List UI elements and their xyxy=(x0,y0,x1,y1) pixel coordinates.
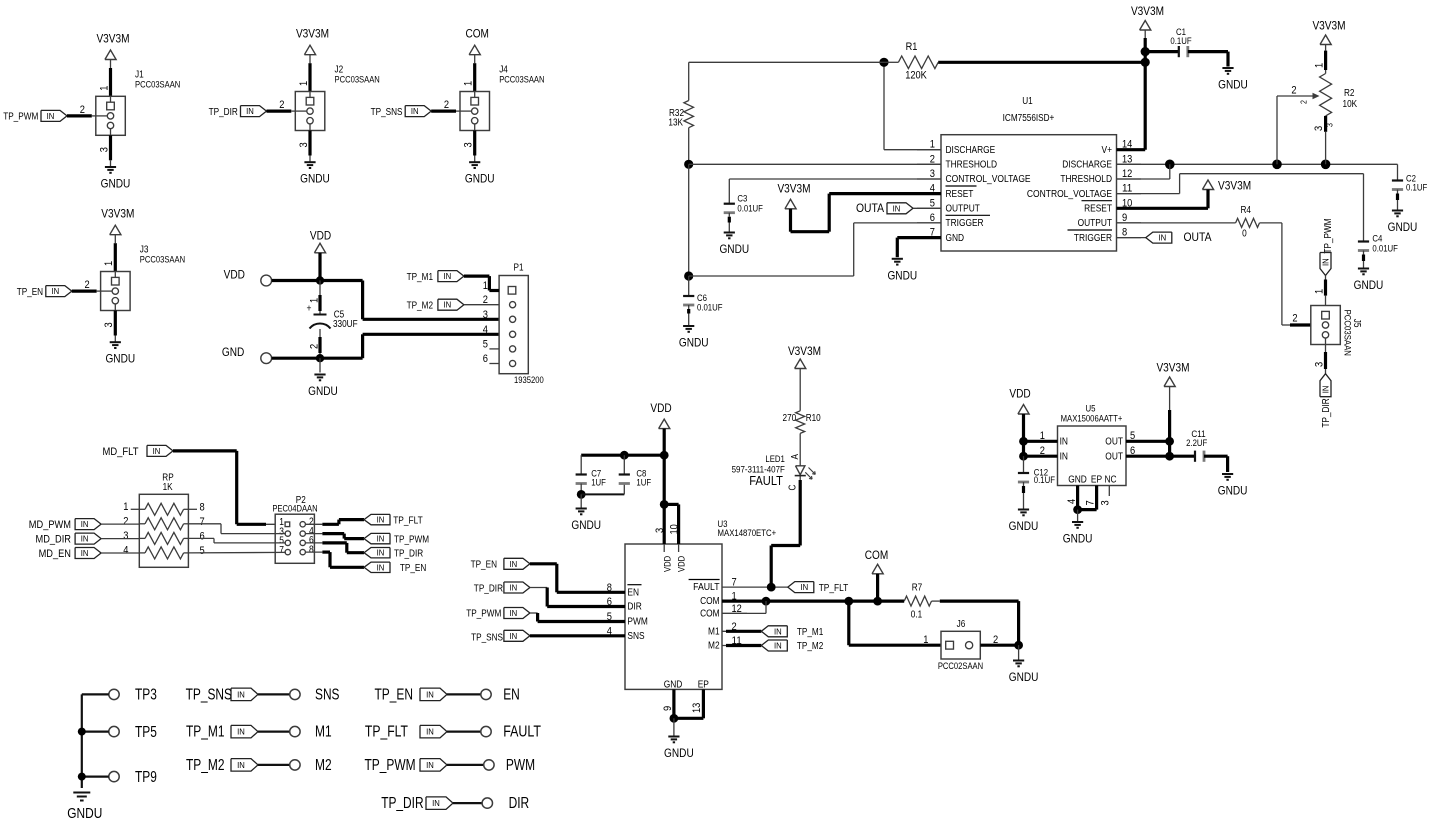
svg-text:TP_DIR: TP_DIR xyxy=(1321,398,1332,427)
svg-text:7: 7 xyxy=(732,577,737,589)
svg-text:GNDU: GNDU xyxy=(67,806,102,822)
svg-text:IN: IN xyxy=(153,446,161,456)
svg-text:IN: IN xyxy=(237,689,245,699)
svg-text:3: 3 xyxy=(463,142,475,147)
svg-text:IN: IN xyxy=(1321,386,1331,394)
svg-text:TP_M1: TP_M1 xyxy=(797,627,824,638)
svg-text:2: 2 xyxy=(1040,445,1045,457)
svg-text:OUTA: OUTA xyxy=(856,201,885,215)
svg-text:COM: COM xyxy=(700,608,720,619)
svg-text:M1: M1 xyxy=(708,626,720,637)
svg-text:1UF: 1UF xyxy=(636,478,651,489)
svg-text:IN: IN xyxy=(237,727,245,737)
svg-text:3: 3 xyxy=(930,168,935,180)
svg-text:0.1UF: 0.1UF xyxy=(1406,183,1427,194)
svg-text:OUT: OUT xyxy=(1105,452,1123,463)
svg-text:4: 4 xyxy=(483,324,488,336)
svg-text:OUTA: OUTA xyxy=(1184,230,1213,244)
svg-text:3: 3 xyxy=(1313,126,1325,131)
svg-text:2: 2 xyxy=(85,279,90,291)
svg-text:GNDU: GNDU xyxy=(1063,532,1093,546)
svg-text:IN: IN xyxy=(377,548,385,558)
svg-text:10: 10 xyxy=(669,524,681,534)
svg-text:GND: GND xyxy=(222,345,244,359)
svg-text:GNDU: GNDU xyxy=(1009,670,1039,684)
svg-text:IN: IN xyxy=(426,727,434,737)
svg-text:1: 1 xyxy=(483,280,488,292)
svg-text:4: 4 xyxy=(1066,499,1078,504)
svg-text:VDD: VDD xyxy=(224,268,245,282)
svg-text:+: + xyxy=(307,303,312,315)
svg-text:MD_PWM: MD_PWM xyxy=(29,519,71,531)
svg-text:V3V3M: V3V3M xyxy=(1131,4,1164,18)
svg-text:TP_DIR: TP_DIR xyxy=(474,583,503,594)
svg-text:1: 1 xyxy=(1313,289,1325,294)
svg-text:M1: M1 xyxy=(315,724,332,741)
svg-text:VDD: VDD xyxy=(677,556,687,572)
svg-text:PCC03SAAN: PCC03SAAN xyxy=(499,75,544,85)
svg-text:GNDU: GNDU xyxy=(300,172,330,186)
svg-text:M2: M2 xyxy=(708,641,720,652)
svg-text:FAULT: FAULT xyxy=(749,473,783,488)
svg-text:GNDU: GNDU xyxy=(1218,78,1248,92)
svg-text:5: 5 xyxy=(483,338,488,350)
svg-text:V3V3M: V3V3M xyxy=(1312,19,1345,33)
svg-text:VDD: VDD xyxy=(662,556,672,572)
svg-text:R1: R1 xyxy=(906,41,918,53)
svg-text:TP_FLT: TP_FLT xyxy=(365,724,409,741)
svg-text:V3V3M: V3V3M xyxy=(101,207,134,221)
svg-text:V3V3M: V3V3M xyxy=(1218,179,1251,193)
svg-text:IN: IN xyxy=(377,562,385,572)
svg-text:LED1: LED1 xyxy=(765,454,785,465)
svg-text:2: 2 xyxy=(80,104,85,116)
svg-text:IN: IN xyxy=(444,300,452,310)
svg-text:A: A xyxy=(790,454,801,460)
svg-text:IN: IN xyxy=(1158,233,1166,243)
svg-text:MAX14870ETC+: MAX14870ETC+ xyxy=(718,528,777,539)
svg-text:1: 1 xyxy=(1040,430,1045,442)
svg-text:V+: V+ xyxy=(1102,145,1113,156)
svg-text:2: 2 xyxy=(1292,313,1297,325)
svg-text:330UF: 330UF xyxy=(333,319,358,330)
svg-text:VDD: VDD xyxy=(1009,387,1030,401)
svg-text:TP_PWM: TP_PWM xyxy=(394,534,429,545)
svg-text:TP_EN: TP_EN xyxy=(400,563,426,574)
svg-text:PCC03SAAN: PCC03SAAN xyxy=(335,75,380,85)
svg-text:TP_DIR: TP_DIR xyxy=(394,549,423,560)
svg-text:5: 5 xyxy=(200,545,205,557)
svg-text:PCC03SAAN: PCC03SAAN xyxy=(1342,310,1353,356)
svg-text:GNDU: GNDU xyxy=(101,177,131,191)
svg-text:TP_PWM: TP_PWM xyxy=(1323,218,1334,253)
svg-text:PEC04DAAN: PEC04DAAN xyxy=(272,504,317,514)
svg-text:IN: IN xyxy=(426,689,434,699)
svg-text:TP_M1: TP_M1 xyxy=(407,272,434,283)
svg-text:TRIGGER: TRIGGER xyxy=(946,218,984,229)
svg-text:IN: IN xyxy=(237,760,245,770)
svg-text:C: C xyxy=(787,485,798,491)
svg-text:RESET: RESET xyxy=(946,189,974,200)
svg-text:PWM: PWM xyxy=(506,757,535,774)
svg-text:GNDU: GNDU xyxy=(719,242,749,256)
svg-text:270: 270 xyxy=(783,413,797,424)
svg-text:TP_SNS: TP_SNS xyxy=(471,633,503,644)
svg-text:IN: IN xyxy=(432,798,440,808)
svg-text:10K: 10K xyxy=(1343,99,1358,110)
svg-text:6: 6 xyxy=(483,353,488,365)
svg-text:8: 8 xyxy=(309,544,314,555)
svg-text:IN: IN xyxy=(377,515,385,525)
svg-text:3: 3 xyxy=(1325,123,1335,127)
svg-text:TP_PWM: TP_PWM xyxy=(466,608,501,619)
svg-text:11: 11 xyxy=(1122,183,1132,195)
svg-text:NC: NC xyxy=(1104,475,1116,486)
svg-text:6: 6 xyxy=(200,530,205,542)
svg-text:OUT: OUT xyxy=(1105,437,1123,448)
svg-text:1: 1 xyxy=(298,81,310,86)
svg-text:1: 1 xyxy=(103,261,115,266)
svg-text:0.1UF: 0.1UF xyxy=(1034,475,1055,486)
svg-text:EP: EP xyxy=(1091,475,1102,486)
svg-text:PCC02SAAN: PCC02SAAN xyxy=(938,661,983,671)
svg-text:GND: GND xyxy=(1068,475,1087,486)
svg-text:TP_DIR: TP_DIR xyxy=(381,795,423,812)
svg-text:MD_DIR: MD_DIR xyxy=(36,533,72,545)
svg-text:1: 1 xyxy=(923,634,928,646)
svg-text:J6: J6 xyxy=(957,619,966,630)
svg-text:GNDU: GNDU xyxy=(679,336,709,350)
svg-text:TP_FLT: TP_FLT xyxy=(393,515,423,526)
svg-text:TP9: TP9 xyxy=(135,769,157,786)
svg-text:CONTROL_VOLTAGE: CONTROL_VOLTAGE xyxy=(1027,189,1112,200)
svg-text:7: 7 xyxy=(200,516,205,528)
svg-text:R10: R10 xyxy=(806,413,821,424)
svg-text:GNDU: GNDU xyxy=(1388,220,1418,234)
svg-text:IN: IN xyxy=(377,534,385,544)
svg-text:DIR: DIR xyxy=(509,795,530,812)
svg-text:3: 3 xyxy=(98,147,110,152)
svg-text:IN: IN xyxy=(246,106,254,116)
svg-text:13: 13 xyxy=(691,703,703,713)
svg-text:7: 7 xyxy=(1085,500,1097,505)
svg-text:GNDU: GNDU xyxy=(1009,519,1039,533)
svg-text:2: 2 xyxy=(1299,100,1309,104)
svg-text:DIR: DIR xyxy=(627,602,641,613)
svg-text:V3V3M: V3V3M xyxy=(296,27,329,41)
svg-text:PCC03SAAN: PCC03SAAN xyxy=(140,255,185,265)
svg-text:P1: P1 xyxy=(514,263,524,274)
svg-text:MAX15006AATT+: MAX15006AATT+ xyxy=(1061,413,1123,423)
svg-text:TP_M2: TP_M2 xyxy=(186,757,225,774)
svg-text:EN: EN xyxy=(503,686,520,703)
svg-text:ICM7556ISD+: ICM7556ISD+ xyxy=(1003,113,1055,124)
svg-text:COM: COM xyxy=(865,548,889,562)
svg-text:1935200: 1935200 xyxy=(514,375,544,385)
svg-text:IN: IN xyxy=(510,583,518,593)
svg-text:EP: EP xyxy=(698,679,709,690)
svg-text:GNDU: GNDU xyxy=(571,518,601,532)
svg-text:RESET: RESET xyxy=(1084,204,1112,215)
svg-text:TP_EN: TP_EN xyxy=(375,686,414,703)
svg-text:VDD: VDD xyxy=(650,401,671,415)
svg-text:TP_EN: TP_EN xyxy=(17,287,43,298)
svg-text:IN: IN xyxy=(510,631,518,641)
svg-text:2: 2 xyxy=(123,515,128,527)
svg-text:8: 8 xyxy=(200,501,205,513)
svg-text:IN: IN xyxy=(81,534,89,544)
svg-text:PCC03SAAN: PCC03SAAN xyxy=(135,79,180,89)
svg-text:6: 6 xyxy=(930,212,935,224)
svg-text:0: 0 xyxy=(1242,229,1247,240)
svg-text:0.1: 0.1 xyxy=(911,610,923,621)
svg-text:MD_FLT: MD_FLT xyxy=(103,446,139,458)
svg-text:DISCHARGE: DISCHARGE xyxy=(1062,160,1112,171)
svg-text:9: 9 xyxy=(1122,212,1127,224)
svg-text:OUTPUT: OUTPUT xyxy=(1078,218,1112,229)
svg-text:V3V3M: V3V3M xyxy=(1156,361,1189,375)
svg-text:TP_FLT: TP_FLT xyxy=(819,583,849,594)
svg-text:SNS: SNS xyxy=(315,686,340,703)
svg-text:GNDU: GNDU xyxy=(1218,484,1248,498)
svg-text:1: 1 xyxy=(463,81,475,86)
svg-text:OUTPUT: OUTPUT xyxy=(946,204,980,215)
svg-text:IN: IN xyxy=(893,203,901,213)
svg-text:GND: GND xyxy=(946,233,965,244)
svg-text:COM: COM xyxy=(465,27,489,41)
svg-text:THRESHOLD: THRESHOLD xyxy=(946,160,998,171)
svg-text:TP_M2: TP_M2 xyxy=(407,301,434,312)
svg-text:TP_SNS: TP_SNS xyxy=(371,107,403,118)
svg-text:TP5: TP5 xyxy=(135,724,157,741)
svg-text:THRESHOLD: THRESHOLD xyxy=(1060,174,1112,185)
svg-text:3: 3 xyxy=(103,322,115,327)
svg-text:IN: IN xyxy=(800,582,808,592)
svg-text:IN: IN xyxy=(81,548,89,558)
svg-text:0.1UF: 0.1UF xyxy=(1170,36,1191,47)
svg-text:2: 2 xyxy=(444,99,449,111)
svg-text:GNDU: GNDU xyxy=(465,172,495,186)
svg-text:PWM: PWM xyxy=(627,617,647,628)
svg-text:0.01UF: 0.01UF xyxy=(697,303,723,314)
svg-text:GNDU: GNDU xyxy=(105,352,135,366)
svg-text:IN: IN xyxy=(444,271,452,281)
svg-text:TP_SNS: TP_SNS xyxy=(186,686,232,703)
svg-text:13K: 13K xyxy=(668,118,683,129)
svg-text:V3V3M: V3V3M xyxy=(788,344,821,358)
svg-text:1UF: 1UF xyxy=(591,478,606,489)
svg-text:TP_EN: TP_EN xyxy=(471,560,497,571)
svg-text:3: 3 xyxy=(654,528,666,533)
svg-text:4: 4 xyxy=(123,544,128,556)
svg-text:2: 2 xyxy=(279,99,284,111)
svg-text:FAULT: FAULT xyxy=(503,724,541,741)
svg-text:IN: IN xyxy=(1060,437,1068,448)
svg-text:3: 3 xyxy=(298,142,310,147)
svg-text:GNDU: GNDU xyxy=(887,268,917,282)
svg-text:IN: IN xyxy=(411,106,419,116)
svg-text:2: 2 xyxy=(309,344,321,349)
svg-text:SNS: SNS xyxy=(627,631,644,642)
svg-text:7: 7 xyxy=(279,545,284,556)
svg-text:TP3: TP3 xyxy=(135,687,157,704)
svg-text:12: 12 xyxy=(1122,168,1132,180)
svg-text:TP_DIR: TP_DIR xyxy=(209,107,238,118)
svg-text:IN: IN xyxy=(47,111,55,121)
svg-text:R7: R7 xyxy=(912,583,923,594)
svg-text:3: 3 xyxy=(1100,500,1112,505)
svg-text:GNDU: GNDU xyxy=(308,384,338,398)
svg-text:U1: U1 xyxy=(1022,96,1033,107)
svg-text:R2: R2 xyxy=(1344,88,1355,99)
svg-text:V3V3M: V3V3M xyxy=(777,182,810,196)
svg-text:1: 1 xyxy=(1314,63,1326,68)
svg-text:3: 3 xyxy=(1313,362,1325,367)
svg-text:GNDU: GNDU xyxy=(664,746,694,760)
svg-text:TP_PWM: TP_PWM xyxy=(3,112,38,123)
svg-text:9: 9 xyxy=(662,706,674,711)
svg-text:EN: EN xyxy=(627,587,639,598)
svg-text:3: 3 xyxy=(123,530,128,542)
svg-text:120K: 120K xyxy=(905,70,927,82)
svg-text:IN: IN xyxy=(510,559,518,569)
svg-text:2.2UF: 2.2UF xyxy=(1186,438,1207,449)
svg-text:TP_M2: TP_M2 xyxy=(797,641,824,652)
svg-text:2: 2 xyxy=(930,153,935,165)
svg-text:V3V3M: V3V3M xyxy=(96,32,129,46)
svg-text:MD_EN: MD_EN xyxy=(39,548,71,560)
svg-text:FAULT: FAULT xyxy=(693,582,720,593)
svg-text:IN: IN xyxy=(774,641,782,651)
svg-text:IN: IN xyxy=(426,760,434,770)
svg-text:GND: GND xyxy=(664,679,683,690)
svg-text:3: 3 xyxy=(483,309,488,321)
svg-text:0.01UF: 0.01UF xyxy=(1372,244,1398,255)
svg-text:TRIGGER: TRIGGER xyxy=(1074,233,1112,244)
svg-text:R4: R4 xyxy=(1240,205,1251,216)
svg-text:0.01UF: 0.01UF xyxy=(737,204,763,215)
svg-text:8: 8 xyxy=(1122,227,1127,239)
svg-text:5: 5 xyxy=(930,197,935,209)
svg-text:13: 13 xyxy=(1122,153,1132,165)
svg-text:VDD: VDD xyxy=(310,229,331,243)
svg-text:1: 1 xyxy=(98,86,110,91)
svg-text:1K: 1K xyxy=(163,482,173,493)
svg-text:IN: IN xyxy=(510,608,518,618)
svg-text:CONTROL_VOLTAGE: CONTROL_VOLTAGE xyxy=(946,174,1031,185)
svg-text:1: 1 xyxy=(123,501,128,513)
svg-text:1: 1 xyxy=(930,139,935,151)
svg-text:DISCHARGE: DISCHARGE xyxy=(946,145,996,156)
svg-text:TP_PWM: TP_PWM xyxy=(365,757,416,774)
svg-text:IN: IN xyxy=(1060,452,1068,463)
svg-text:IN: IN xyxy=(774,626,782,636)
svg-text:COM: COM xyxy=(700,596,720,607)
svg-text:IN: IN xyxy=(51,286,59,296)
svg-text:M2: M2 xyxy=(315,757,332,774)
svg-text:IN: IN xyxy=(1321,258,1331,266)
svg-text:TP_M1: TP_M1 xyxy=(186,724,225,741)
svg-text:GNDU: GNDU xyxy=(1354,278,1384,292)
svg-text:IN: IN xyxy=(81,519,89,529)
svg-text:2: 2 xyxy=(1291,85,1296,97)
